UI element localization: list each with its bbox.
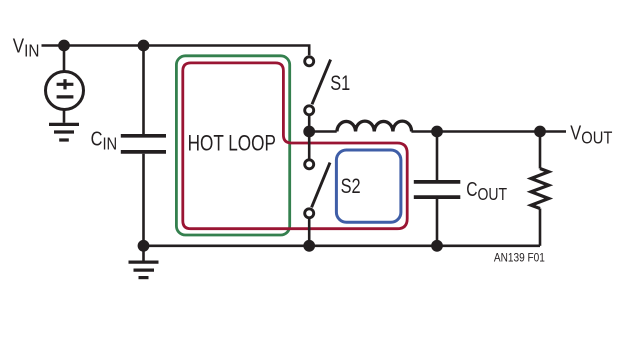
- wire S1 bottom to S2 top: [308, 115, 311, 159]
- ground (bottom rail): [142, 246, 145, 261]
- label VIN: [13, 34, 40, 61]
- svg-text:CIN: CIN: [91, 127, 118, 154]
- inductor L1: [337, 121, 412, 131]
- wire mid rail right: [411, 130, 566, 133]
- svg-text:S1: S1: [330, 71, 350, 94]
- label AN139 F01: [494, 252, 545, 265]
- resistor R load: [531, 169, 549, 209]
- capacitor CIN: [121, 134, 166, 138]
- wire VS to ground: [63, 110, 66, 123]
- node VIN dot: [58, 40, 70, 52]
- label S1: [330, 71, 350, 94]
- wire S2 bottom: [308, 218, 311, 245]
- node L-COUT dot: [431, 126, 443, 138]
- label COUT: [466, 178, 507, 204]
- wire resistor top: [539, 132, 542, 169]
- wire bottom rail: [144, 245, 541, 248]
- node ground dot: [138, 240, 150, 252]
- switch S2 box blue: [336, 150, 401, 222]
- node COUT bottom dot: [431, 240, 443, 252]
- wire resistor bottom: [539, 209, 542, 246]
- wire mid rail left: [309, 130, 337, 133]
- wire CIN bottom: [142, 154, 145, 246]
- svg-text:VIN: VIN: [13, 34, 40, 61]
- label HOT LOOP: [188, 132, 276, 157]
- switch S2: [312, 163, 330, 208]
- wire VS stub: [63, 46, 66, 72]
- wire COUT bottom: [436, 199, 439, 246]
- svg-text:S2: S2: [341, 174, 361, 197]
- hot loop path maroon: [183, 63, 407, 229]
- ground (voltage source): [49, 123, 79, 126]
- label VOUT: [570, 121, 612, 148]
- svg-text:COUT: COUT: [466, 178, 507, 204]
- voltage source V1: [46, 72, 84, 110]
- wire top rail VIN to S1: [42, 46, 310, 56]
- svg-text:AN139 F01: AN139 F01: [494, 252, 545, 265]
- label CIN: [91, 127, 118, 154]
- node VOUT dot: [534, 126, 546, 138]
- label S2: [341, 174, 361, 197]
- node CIN top dot: [138, 40, 150, 52]
- capacitor COUT: [414, 180, 461, 184]
- wire COUT top: [436, 132, 439, 181]
- switch S1: [312, 60, 331, 105]
- svg-text:VOUT: VOUT: [570, 121, 612, 148]
- svg-text:HOT LOOP: HOT LOOP: [188, 132, 276, 157]
- wire CIN branch top: [142, 46, 145, 135]
- node S2 bottom dot: [303, 240, 315, 252]
- node SW dot: [303, 126, 315, 138]
- hot loop outline green: [176, 56, 289, 235]
